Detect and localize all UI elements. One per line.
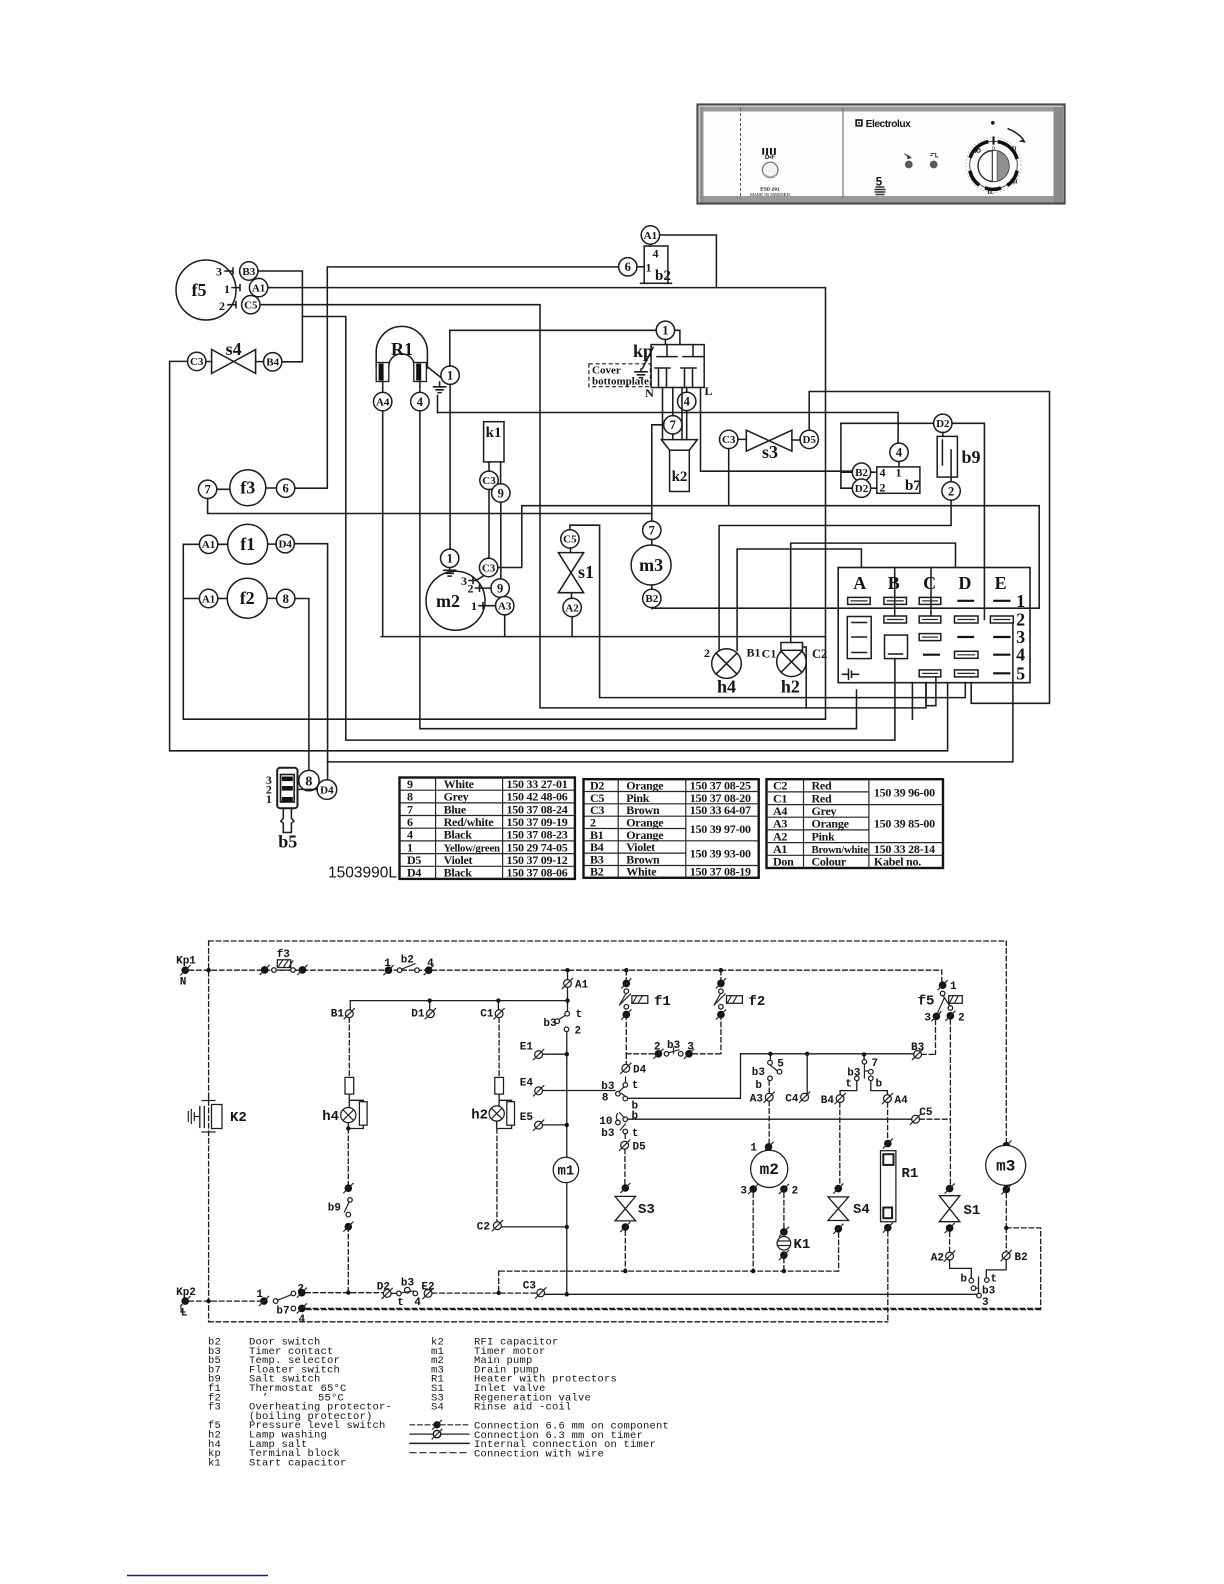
- wire k1.C3 to m2.C3: [488, 490, 490, 559]
- terminal 7 (kp): [664, 416, 682, 434]
- timer contact b3 3 (b-t): [960, 1274, 997, 1310]
- svg-text:6: 6: [282, 482, 288, 496]
- svg-text:b3: b3: [982, 1286, 996, 1298]
- wire b7.4 bus dashed: [306, 1307, 1041, 1309]
- svg-text:4: 4: [653, 247, 659, 261]
- svg-text:B1: B1: [331, 1009, 345, 1021]
- terminal block kp: [633, 341, 704, 388]
- overheating protector f3 (bottom): [260, 949, 307, 975]
- svg-text:1: 1: [950, 981, 957, 993]
- door switch b2: [641, 246, 672, 284]
- svg-text:bottomplate: bottomplate: [592, 376, 649, 388]
- svg-text:b5: b5: [278, 832, 297, 852]
- svg-text:3: 3: [216, 265, 222, 279]
- cable table 1: [400, 777, 575, 880]
- svg-text:S3: S3: [638, 1202, 655, 1218]
- svg-text:A2: A2: [931, 1253, 944, 1265]
- svg-text:1: 1: [662, 324, 668, 338]
- svg-text:f5: f5: [918, 994, 935, 1010]
- svg-text:Kp2: Kp2: [176, 1287, 196, 1299]
- svg-text:C1: C1: [480, 1009, 494, 1021]
- SEC:B5: [266, 768, 397, 882]
- timer contact b3 10 (b-t): [599, 1111, 911, 1141]
- thermostat f1: [228, 524, 268, 564]
- timer contact b3 7: [840, 1054, 887, 1094]
- connection C4: [785, 1054, 810, 1106]
- svg-text:B2: B2: [590, 865, 604, 879]
- terminal A1 (f1): [199, 535, 217, 553]
- lamp h2 branch (bottom): [471, 1018, 514, 1222]
- svg-text:Colour: Colour: [812, 855, 847, 869]
- svg-text:III: III: [1010, 147, 1018, 153]
- svg-text:3: 3: [461, 574, 467, 588]
- svg-text:b2: b2: [655, 268, 671, 284]
- svg-text:C3: C3: [190, 356, 204, 368]
- wire C3 net (s4 to block D): [170, 361, 948, 750]
- terminal 1 (R1 protector): [441, 366, 459, 384]
- wire block to bus719: [911, 683, 913, 720]
- wire B2/D2 b7 loop: [841, 423, 852, 488]
- svg-text:b9: b9: [328, 1203, 341, 1215]
- connection D5: [619, 1134, 646, 1185]
- connection A4: [882, 1093, 908, 1139]
- terminal D2 (b7): [852, 479, 870, 497]
- svg-text:t: t: [991, 1274, 998, 1286]
- lamp h2: [762, 643, 828, 697]
- connection D4: [621, 1054, 647, 1077]
- svg-text:4: 4: [896, 446, 903, 460]
- cover bottomplate box: [589, 364, 651, 388]
- svg-text:3: 3: [982, 1297, 989, 1309]
- svg-text:150 39 85-00: 150 39 85-00: [874, 817, 935, 831]
- svg-text:f1: f1: [240, 534, 255, 554]
- svg-text:B3: B3: [242, 266, 255, 278]
- SEC:BOTDIAG: [176, 941, 1006, 1322]
- wire kp.4 vertical: [663, 388, 687, 440]
- terminal 4 (b7 top): [890, 443, 908, 461]
- svg-text:D4: D4: [278, 539, 292, 551]
- svg-text:R1: R1: [391, 339, 413, 359]
- thermostat f2 (bottom): [714, 970, 765, 1054]
- svg-text:8: 8: [305, 774, 312, 789]
- svg-text:f5: f5: [192, 280, 207, 300]
- svg-text:h2: h2: [781, 677, 800, 697]
- terminal strip block: [838, 568, 1030, 684]
- svg-text:D1: D1: [411, 1009, 425, 1021]
- wire h4.B1 to block B: [737, 549, 861, 651]
- svg-text:b: b: [960, 1274, 967, 1286]
- svg-text:Pink: Pink: [812, 829, 836, 843]
- wire kp.1 right stub: [665, 330, 679, 344]
- terminal B2 (b7): [852, 463, 870, 481]
- wire f3 stubs: [217, 488, 277, 489]
- wire f3.6 net to b2.6: [295, 267, 619, 488]
- terminal D2 (b9 top): [934, 414, 952, 432]
- svg-text:A1: A1: [252, 282, 265, 294]
- svg-text:Connection with wire: Connection with wire: [474, 1449, 604, 1461]
- svg-text:A1: A1: [202, 539, 215, 551]
- svg-text:A4: A4: [376, 396, 390, 408]
- block ground pin: [843, 669, 859, 679]
- block A column big contact: [847, 617, 871, 659]
- timer contact b3 t-4 (Kp2 line): [391, 1278, 421, 1310]
- heater R1: [376, 326, 427, 392]
- terminal 8 (f2): [277, 589, 295, 607]
- heater R1 (bottom): [881, 1139, 919, 1322]
- svg-text:MADE IN SWEDEN: MADE IN SWEDEN: [750, 192, 790, 197]
- svg-text:Black: Black: [444, 866, 473, 880]
- svg-text:b7: b7: [905, 478, 921, 494]
- svg-text:4: 4: [880, 466, 886, 480]
- Electrolux logo: [855, 119, 911, 130]
- svg-text:D•F: D•F: [765, 155, 775, 161]
- svg-text:8: 8: [602, 1093, 609, 1105]
- svg-text:S4: S4: [853, 1202, 870, 1218]
- svg-text:150 39 93-00: 150 39 93-00: [690, 847, 751, 861]
- wire m2 terminal connectors: [473, 576, 496, 606]
- svg-text:D: D: [958, 573, 971, 593]
- svg-text:C2: C2: [812, 647, 827, 661]
- svg-text:D2: D2: [936, 418, 950, 430]
- svg-text:o: o: [992, 145, 995, 151]
- wire A4 net to bus636: [381, 411, 825, 637]
- wire h2.C1 to block C: [791, 543, 956, 642]
- wire D5 net: [809, 392, 1049, 704]
- svg-text:II.: II.: [988, 190, 995, 196]
- salt 5 icon: [875, 177, 886, 195]
- svg-text:B2: B2: [645, 593, 658, 605]
- svg-text:1: 1: [447, 369, 453, 383]
- svg-text:kp: kp: [633, 341, 653, 361]
- regeneration valve S3: [615, 1183, 655, 1271]
- svg-text:t: t: [845, 1079, 852, 1091]
- RFI capacitor k2: [661, 440, 697, 492]
- svg-text:b: b: [632, 1111, 639, 1123]
- wire ground bus y412 to b7: [438, 413, 899, 444]
- svg-text:8: 8: [283, 592, 289, 606]
- svg-text:A3: A3: [498, 601, 512, 613]
- inlet valve S1: [939, 1020, 980, 1253]
- wire C3(s3) down to bus506: [728, 449, 730, 506]
- svg-text:m2: m2: [436, 591, 460, 611]
- wire k1.9 to m2.9: [500, 502, 502, 579]
- svg-text:▌▌▌▌: ▌▌▌▌: [762, 148, 778, 155]
- terminal B2 (m3): [643, 589, 661, 607]
- connection E5: [520, 1112, 569, 1130]
- block row5 contacts: [919, 670, 1009, 677]
- svg-text:A1: A1: [644, 230, 657, 242]
- wire b9.2 net to h4: [719, 500, 951, 650]
- svg-text:A1: A1: [202, 593, 215, 605]
- svg-text:9: 9: [497, 581, 503, 595]
- wire m3 stubs: [652, 540, 1039, 609]
- connection B1: [331, 1001, 355, 1021]
- timer contact b3 2-3: [626, 1040, 721, 1058]
- svg-text:7: 7: [649, 524, 655, 538]
- svg-text:f3: f3: [240, 478, 255, 498]
- legend symbol: connection 6.6mm: [410, 1420, 669, 1432]
- wire b5 to 8: [298, 782, 318, 789]
- connection D1: [411, 1001, 435, 1021]
- wire A1 long net: [183, 288, 825, 720]
- svg-text:4: 4: [1016, 645, 1025, 665]
- wire b2.6 stub: [637, 266, 644, 268]
- salt switch b9: [937, 433, 980, 482]
- node Kp1: [176, 956, 196, 989]
- svg-text:D4: D4: [407, 866, 421, 880]
- wire b2.A1 top stub: [649, 244, 651, 246]
- svg-text:III: III: [1011, 180, 1019, 186]
- svg-text:Start capacitor: Start capacitor: [249, 1457, 347, 1469]
- wire A1 chain vertical: [566, 970, 569, 1157]
- svg-text:Black: Black: [444, 828, 473, 842]
- svg-text:m3: m3: [639, 555, 663, 575]
- wire branch B3 net to bus740: [302, 317, 895, 741]
- terminal 4 (kp): [678, 392, 696, 410]
- SEC:BOTDIAG3: [176, 1020, 1041, 1326]
- svg-text:C5: C5: [919, 1107, 933, 1119]
- timer contact b3 8 (t-b): [601, 1052, 917, 1113]
- connection B4: [821, 1093, 846, 1184]
- svg-text:m1: m1: [557, 1164, 574, 1180]
- svg-text:2: 2: [792, 1186, 799, 1198]
- svg-text:A1: A1: [575, 980, 589, 992]
- outer dashed frame top: [209, 940, 1007, 942]
- SEC:LEGEND: [208, 1337, 669, 1470]
- svg-text:S1: S1: [964, 1203, 981, 1219]
- terminal A1 (b2): [641, 226, 659, 244]
- svg-text:Don: Don: [773, 855, 794, 869]
- svg-text:k1: k1: [486, 425, 502, 441]
- terminal D5 (s3): [800, 430, 818, 448]
- svg-text:1: 1: [646, 261, 652, 275]
- overheating protector f3: [230, 470, 266, 506]
- svg-text:s1: s1: [578, 562, 594, 582]
- svg-text:3: 3: [924, 1013, 931, 1025]
- wire D2 bus to block: [841, 423, 985, 619]
- wire R1.4 net to bus728: [420, 411, 857, 729]
- wire b7 terminals stubs: [871, 472, 877, 488]
- svg-text:4: 4: [298, 1314, 305, 1326]
- wire s1 loop net: [570, 525, 965, 697]
- terminal C3 (k1): [480, 471, 498, 489]
- svg-text:1: 1: [224, 282, 230, 296]
- svg-text:150 39 97-00: 150 39 97-00: [690, 822, 751, 836]
- svg-text:s4: s4: [226, 339, 242, 359]
- svg-text:C: C: [923, 573, 936, 593]
- terminal A2 (s1): [563, 598, 581, 616]
- svg-text:C2: C2: [477, 1222, 490, 1234]
- SEC:BOTDIAG2: [599, 970, 964, 1184]
- svg-text:D2: D2: [855, 483, 869, 495]
- svg-text:2: 2: [575, 1026, 582, 1038]
- terminal 9 (k1): [492, 484, 510, 502]
- connection E2: [421, 1282, 536, 1299]
- wire f3.7 net to m3.7: [208, 499, 652, 514]
- under-block U loop (C5 bus end): [926, 677, 936, 706]
- panel divider solid: [842, 108, 844, 198]
- terminal C5 (s1): [561, 530, 579, 548]
- terminal 9 (m2): [491, 579, 509, 597]
- svg-text:f1: f1: [654, 994, 671, 1010]
- svg-text:s3: s3: [762, 442, 778, 462]
- door switch b2 (bottom): [384, 955, 434, 975]
- SEC:PANEL: [698, 105, 1065, 204]
- svg-text:D4: D4: [633, 1065, 647, 1077]
- connection B2: [986, 1250, 1027, 1278]
- svg-text:t: t: [632, 1128, 639, 1140]
- terminal B3 (f5.3): [240, 262, 258, 280]
- wire s3 stubs: [738, 438, 800, 441]
- svg-text:150 37 08-06: 150 37 08-06: [507, 866, 568, 880]
- svg-text:b3: b3: [601, 1128, 615, 1140]
- svg-text:1: 1: [471, 599, 477, 613]
- block B column big contact: [885, 635, 908, 659]
- lamp h4: [704, 646, 761, 697]
- svg-text:9: 9: [498, 486, 504, 500]
- timer motor m1: [553, 1157, 578, 1294]
- floater switch b7: [877, 466, 922, 495]
- svg-text:2: 2: [468, 582, 474, 596]
- terminal 1 (kp): [656, 321, 674, 339]
- svg-text:h4: h4: [322, 1109, 339, 1125]
- indicator lamp 1: [905, 154, 913, 169]
- SEC:TOPDIAG3: [704, 543, 1030, 719]
- svg-text:150 37 08-19: 150 37 08-19: [690, 865, 751, 879]
- svg-text:A4: A4: [895, 1095, 909, 1107]
- wire C2 to m1 chain: [501, 1226, 567, 1228]
- wire kp pin to b7.B2 row: [701, 388, 853, 472]
- wire b2.A1 to A1 net: [660, 235, 717, 288]
- wire b7.4 stub: [898, 462, 900, 467]
- junction dots kp1 bus: [206, 968, 210, 972]
- wire D4 stub to b5.D4: [327, 762, 329, 781]
- svg-text:t: t: [576, 1009, 583, 1021]
- svg-text:E1: E1: [520, 1042, 534, 1054]
- svg-text:C3: C3: [482, 475, 496, 487]
- connection C1: [480, 1001, 504, 1021]
- svg-text:Rinse aid -coil: Rinse aid -coil: [474, 1402, 572, 1414]
- svg-text:B2: B2: [1015, 1252, 1028, 1264]
- svg-text:K1: K1: [794, 1237, 811, 1253]
- timer connection A1: [562, 978, 588, 991]
- main pump m2 (bottom): [740, 1142, 798, 1271]
- wire C3 solid to b3.3: [545, 1293, 977, 1295]
- terminal C3 (m2): [479, 558, 497, 576]
- program knob: [966, 121, 1025, 196]
- svg-text:2: 2: [219, 299, 225, 313]
- terminal B4 (s4): [264, 353, 282, 371]
- svg-text:B4: B4: [266, 357, 279, 369]
- wire m2.C3 to bus506: [498, 506, 1039, 609]
- svg-text:1503990L: 1503990L: [328, 865, 397, 882]
- svg-text:t: t: [397, 1297, 404, 1309]
- svg-text:2: 2: [958, 1013, 965, 1025]
- svg-text:C3: C3: [482, 562, 496, 574]
- svg-text:2: 2: [704, 646, 710, 660]
- wire m2.A3 down: [504, 615, 506, 637]
- panel button: [762, 148, 778, 178]
- svg-text:h4: h4: [717, 677, 736, 697]
- svg-text:Kp1: Kp1: [176, 956, 196, 968]
- node Kp2: [176, 1287, 196, 1320]
- legend symbol: connection with wire: [410, 1449, 604, 1461]
- footer blue line: [127, 1575, 268, 1577]
- svg-text:f2: f2: [749, 994, 766, 1010]
- svg-text:b7: b7: [276, 1306, 289, 1318]
- svg-text:b9: b9: [961, 447, 980, 467]
- drain pump m3 (bottom): [302, 1141, 1041, 1310]
- block row2 contacts: [884, 616, 1013, 623]
- SEC:TOPDIAG2: [426, 226, 1050, 704]
- svg-text:E4: E4: [520, 1078, 534, 1090]
- terminal C5 (f5.2): [242, 296, 260, 314]
- connection E1: [520, 1042, 569, 1060]
- panel divider dashed: [740, 108, 742, 199]
- legend symbol: internal connection: [410, 1439, 656, 1451]
- wire h2.C2 down: [803, 647, 807, 708]
- svg-text:B1: B1: [747, 646, 761, 660]
- svg-text:b3: b3: [752, 1067, 766, 1079]
- svg-text:B2: B2: [855, 467, 868, 479]
- cable table 2: [584, 779, 759, 879]
- svg-text:b: b: [755, 1080, 762, 1092]
- svg-text:2: 2: [948, 484, 954, 498]
- R1 protector diagonal and ground: [426, 366, 445, 413]
- terminal A4 (R1): [374, 392, 392, 410]
- svg-text:L: L: [704, 384, 712, 398]
- connection A2: [931, 1251, 972, 1278]
- svg-text:k1: k1: [208, 1457, 221, 1469]
- svg-text:D5: D5: [633, 1142, 647, 1154]
- wire f2.8 net to b5.8: [295, 599, 309, 772]
- wire D4 net long: [294, 544, 1013, 762]
- svg-text:b3: b3: [601, 1081, 615, 1093]
- indicator lamp 2: [930, 153, 939, 169]
- wire Kp1 bus dashed: [189, 970, 942, 981]
- svg-text:Electrolux: Electrolux: [866, 119, 912, 130]
- svg-text:C4: C4: [785, 1094, 799, 1106]
- terminal 2 (b9): [942, 482, 960, 500]
- svg-text:D5: D5: [802, 434, 816, 446]
- SEC:TABLES: [400, 777, 944, 880]
- control panel frame: [698, 105, 1065, 204]
- temp selector b5: [266, 768, 298, 852]
- dashed bus to Kp2 line: [498, 1271, 500, 1293]
- wire lamp feed line y1000: [350, 1000, 567, 1002]
- thermostat f2: [227, 578, 267, 618]
- svg-text:3: 3: [740, 1186, 747, 1198]
- outer dashed frame left: [208, 941, 210, 1322]
- wire f5.3 to B3 dashed: [935, 1020, 937, 1054]
- terminal D4 (f1): [276, 535, 294, 553]
- svg-text:1: 1: [266, 792, 272, 806]
- valve s3: [746, 430, 792, 462]
- svg-text:1: 1: [447, 552, 453, 566]
- svg-text:1: 1: [750, 1143, 757, 1155]
- svg-text:4: 4: [414, 1297, 421, 1309]
- terminal C3 (s3): [720, 430, 738, 448]
- connection C5: [910, 1107, 950, 1124]
- timer contact b3 5: [752, 1054, 785, 1092]
- wire s4 stubs: [206, 361, 264, 363]
- terminal 4 (R1): [411, 392, 429, 410]
- wire B3 to s4.B4 vertical: [258, 271, 302, 362]
- svg-text:f3: f3: [208, 1402, 221, 1414]
- svg-text:C1: C1: [762, 647, 777, 661]
- svg-text:7: 7: [872, 1058, 879, 1070]
- connection C3 (Kp2 line): [523, 1281, 546, 1299]
